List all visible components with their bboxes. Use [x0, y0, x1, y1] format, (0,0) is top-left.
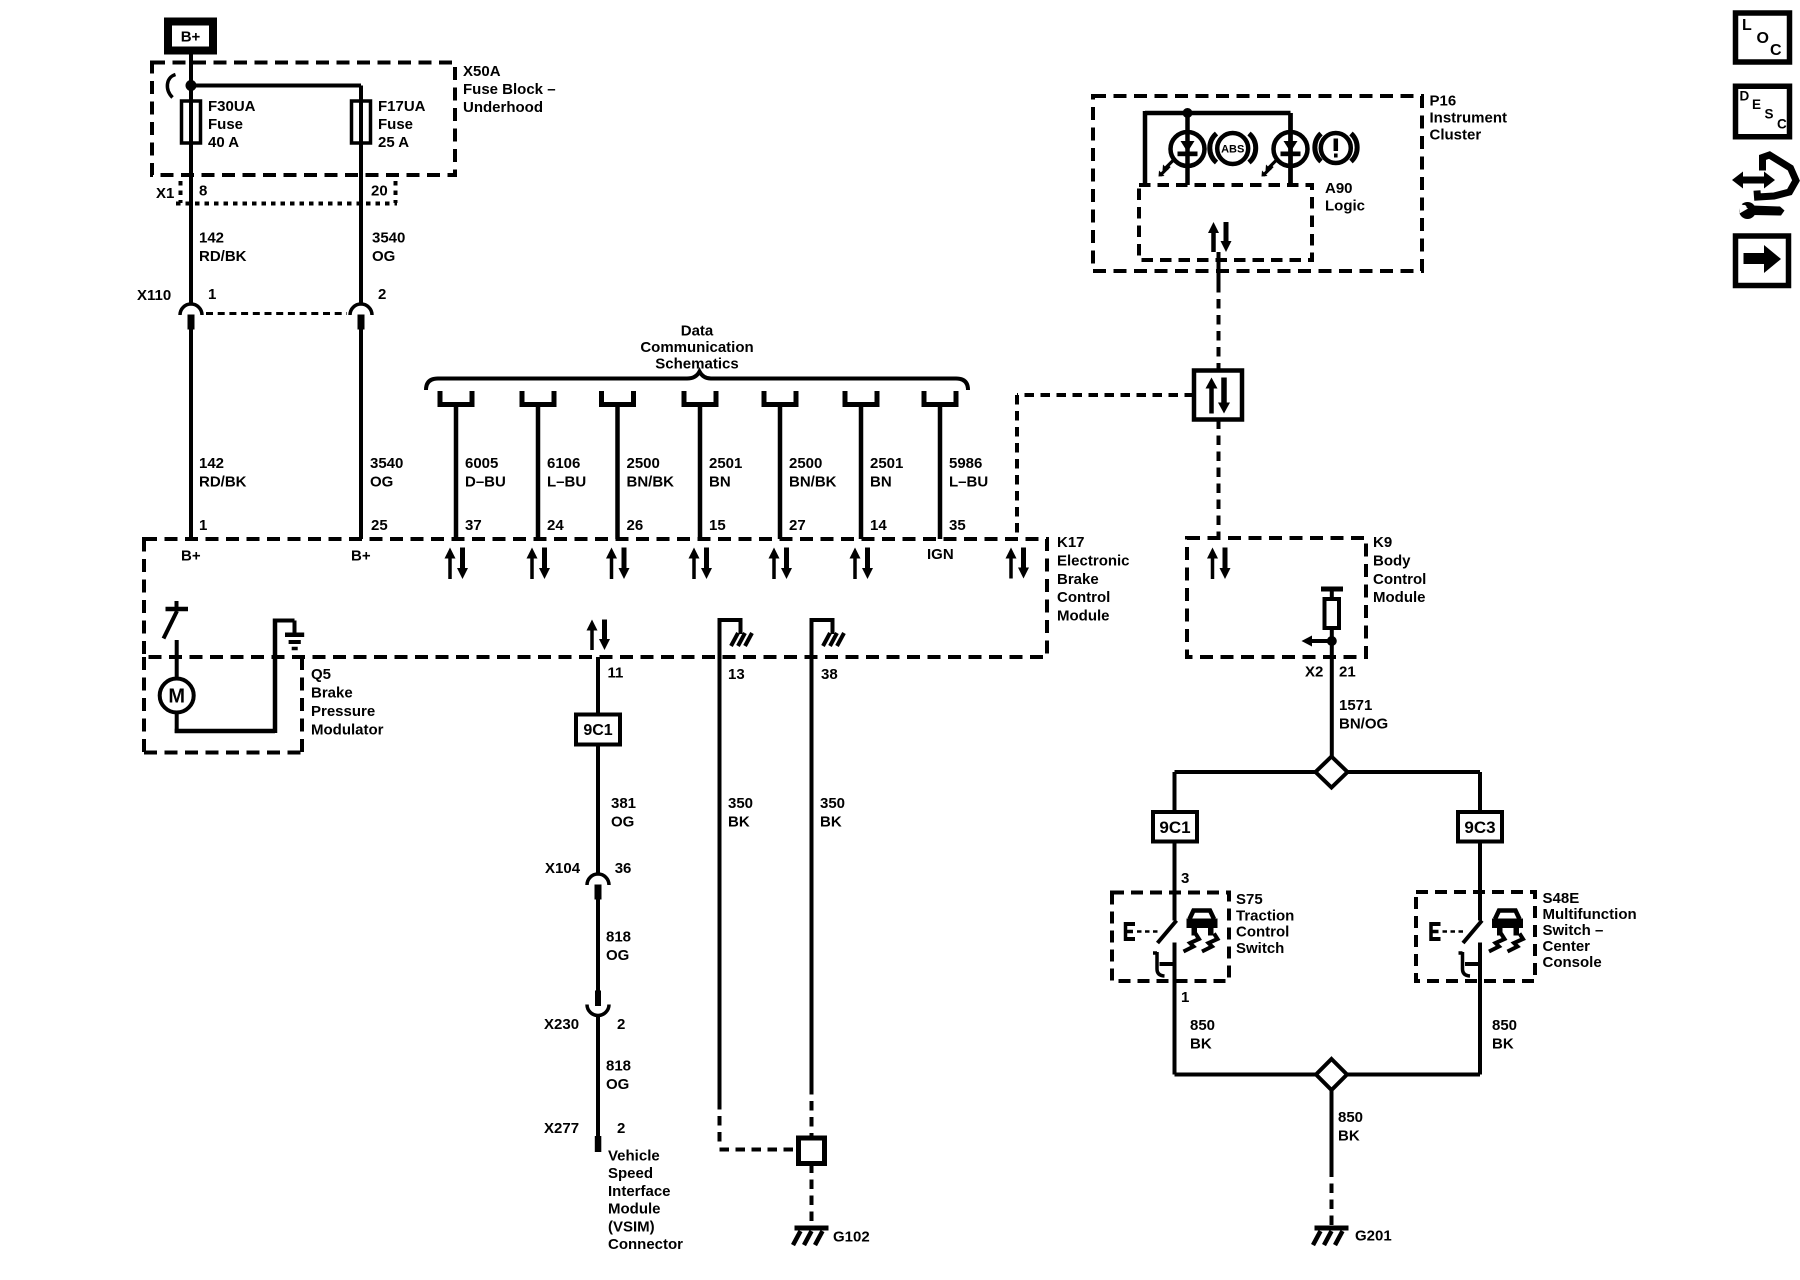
svg-text:Cluster: Cluster	[1430, 127, 1482, 144]
wire 9C3 to S48E	[1478, 842, 1482, 921]
svg-text:9C1: 9C1	[1159, 818, 1190, 837]
K17 serial-data arrows below pin 26	[610, 557, 614, 580]
svg-text:Fuse: Fuse	[378, 116, 413, 133]
connector X230 pin 2	[595, 991, 601, 1007]
K17 pin 38 internal ground symbol	[812, 618, 833, 622]
module K9 Body Control Module dashed box	[1187, 538, 1366, 657]
svg-text:B+: B+	[181, 548, 201, 565]
bottom wires joining splice diamond	[1175, 1073, 1317, 1077]
svg-text:P16: P16	[1430, 93, 1457, 110]
svg-text:6005: 6005	[465, 455, 498, 472]
svg-text:20: 20	[371, 183, 388, 200]
S48E traction control icon	[1495, 911, 1520, 920]
K17 serial-data arrows below pin 15	[692, 557, 696, 580]
svg-text:27: 27	[789, 517, 806, 534]
wire fuse F17UA to connector X110 pin 2	[359, 143, 363, 304]
A90 serial data arrows	[1211, 231, 1216, 252]
svg-text:O: O	[1757, 30, 1769, 47]
svg-text:25: 25	[371, 517, 388, 534]
K17 serial-data arrows below pin 27	[772, 557, 776, 580]
ABS warning symbol (ABS)	[1210, 134, 1217, 163]
svg-text:Communication: Communication	[640, 339, 753, 356]
splice diamond junction (bottom)	[1316, 1059, 1347, 1090]
svg-text:Console: Console	[1543, 954, 1602, 971]
connector X110 pin 2	[350, 304, 372, 315]
svg-text:818: 818	[606, 1058, 631, 1075]
icon button LOC	[1736, 13, 1790, 62]
svg-text:1: 1	[208, 286, 216, 303]
svg-text:9C3: 9C3	[1464, 818, 1495, 837]
brace over data communication wires	[426, 372, 968, 391]
svg-text:26: 26	[627, 517, 644, 534]
svg-text:Vehicle: Vehicle	[608, 1148, 660, 1165]
data link connector stub 7	[924, 391, 956, 405]
svg-text:Connector: Connector	[608, 1236, 683, 1253]
S75 switch contacts	[1124, 922, 1128, 941]
svg-text:C: C	[1777, 117, 1787, 132]
data link connector stub 1	[440, 391, 472, 405]
svg-text:40 A: 40 A	[208, 134, 239, 151]
svg-text:OG: OG	[606, 947, 629, 964]
K17 pin 11 serial data arrows	[590, 629, 594, 651]
fuse F17UA 25 A	[359, 101, 363, 143]
svg-text:381: 381	[611, 795, 636, 812]
svg-text:F17UA: F17UA	[378, 98, 426, 115]
svg-text:BN/BK: BN/BK	[627, 474, 675, 491]
svg-text:2500: 2500	[627, 455, 660, 472]
K17 serial-data arrows below pin 37	[448, 557, 452, 580]
svg-text:142: 142	[199, 230, 224, 247]
K17 serial-data arrows below pin 14	[853, 557, 857, 580]
wire fuse F30UA to connector X110 pin 1	[189, 143, 193, 304]
icon diagnostic link (arrows and wrench)	[1742, 177, 1765, 184]
svg-text:14: 14	[870, 517, 887, 534]
svg-text:1: 1	[199, 517, 207, 534]
wire cluster to serial data link	[1217, 252, 1221, 283]
svg-text:Q5: Q5	[311, 666, 331, 683]
svg-text:IGN: IGN	[927, 546, 954, 563]
wire 2500 BN/BK to K17 pin 26	[615, 405, 620, 540]
svg-text:Modulator: Modulator	[311, 722, 384, 739]
svg-text:1571: 1571	[1339, 697, 1372, 714]
svg-text:RD/BK: RD/BK	[199, 474, 247, 491]
svg-text:F30UA: F30UA	[208, 98, 256, 115]
svg-text:Control: Control	[1373, 571, 1426, 588]
svg-text:11: 11	[608, 665, 624, 682]
svg-text:Center: Center	[1543, 938, 1591, 955]
svg-text:S75: S75	[1236, 891, 1263, 908]
svg-text:142: 142	[199, 455, 224, 472]
svg-text:Control: Control	[1236, 924, 1289, 941]
svg-text:Speed: Speed	[608, 1165, 653, 1182]
brake warning symbol ((!))	[1315, 134, 1321, 162]
connector X277 pin 2 - VSIM connector end	[595, 1136, 602, 1152]
svg-text:5986: 5986	[949, 455, 982, 472]
wire B+ to fuse block	[189, 51, 193, 86]
svg-text:1: 1	[1181, 989, 1189, 1006]
svg-text:Switch –: Switch –	[1543, 922, 1604, 939]
svg-text:BN: BN	[870, 474, 892, 491]
serial data link junction box	[1194, 371, 1242, 420]
svg-text:Fuse Block –: Fuse Block –	[463, 81, 556, 98]
brake pressure switch inside K17	[166, 607, 189, 612]
K17 right-side serial data arrows	[1009, 557, 1013, 579]
wire 850 BK to ground G201	[1330, 1090, 1334, 1168]
svg-text:Pressure: Pressure	[311, 703, 375, 720]
fuse block X50A dashed box	[152, 63, 455, 176]
icon button DESC	[1736, 86, 1790, 137]
junction dot on cluster bus	[1183, 108, 1193, 118]
svg-text:BK: BK	[1190, 1036, 1212, 1053]
data link connector stub 2	[522, 391, 554, 405]
svg-text:OG: OG	[370, 474, 393, 491]
svg-text:350: 350	[728, 795, 753, 812]
fuse F30UA 40 A	[189, 101, 193, 143]
svg-text:X104: X104	[545, 860, 581, 877]
wire junction to F17UA branch	[189, 84, 361, 88]
svg-text:3540: 3540	[372, 230, 405, 247]
wire 6005 D-BU to K17 pin 37	[454, 405, 459, 540]
svg-text:38: 38	[821, 666, 838, 683]
svg-text:850: 850	[1190, 1017, 1215, 1034]
svg-text:M: M	[168, 686, 185, 708]
svg-text:OG: OG	[372, 248, 395, 265]
cluster feed bus wire	[1143, 111, 1148, 185]
module P16 Instrument Cluster dashed box	[1093, 96, 1422, 271]
svg-text:BK: BK	[1492, 1036, 1514, 1053]
svg-text:K9: K9	[1373, 534, 1392, 551]
svg-text:BK: BK	[728, 814, 750, 831]
svg-text:A90: A90	[1325, 180, 1353, 197]
svg-text:X230: X230	[544, 1016, 579, 1033]
module Q5 Brake Pressure Modulator dashed box	[142, 657, 146, 753]
splice junction in fuse block	[186, 80, 197, 91]
internal ground of K17 brake pressure modulator circuit	[175, 713, 179, 734]
svg-text:D–BU: D–BU	[465, 474, 506, 491]
ground G102	[795, 1226, 829, 1231]
K9 switch signal sensing element	[1321, 587, 1343, 592]
svg-text:350: 350	[820, 795, 845, 812]
svg-text:G102: G102	[833, 1229, 870, 1246]
K17 serial-data arrows below pin 24	[530, 557, 534, 580]
connector X110 dashed pairing line	[206, 312, 347, 315]
svg-text:X277: X277	[544, 1120, 579, 1137]
svg-text:X2: X2	[1305, 664, 1323, 681]
svg-text:Traction: Traction	[1236, 907, 1294, 924]
dashed wire splice block to ground G102	[810, 1164, 814, 1226]
wire 818 OG (lower)	[596, 1017, 600, 1137]
svg-text:Data: Data	[681, 323, 714, 340]
svg-text:S: S	[1765, 107, 1774, 122]
svg-text:9C1: 9C1	[583, 722, 612, 739]
svg-text:ABS: ABS	[1221, 144, 1244, 156]
svg-text:Logic: Logic	[1325, 198, 1365, 215]
svg-text:21: 21	[1339, 664, 1356, 681]
svg-text:15: 15	[709, 517, 726, 534]
svg-text:Interface: Interface	[608, 1183, 671, 1200]
svg-text:BN/OG: BN/OG	[1339, 716, 1388, 733]
power node B+ (battery feed)	[168, 22, 213, 51]
svg-text:13: 13	[728, 666, 745, 683]
wire K17 pin 11 to splice 9C1	[596, 657, 600, 873]
wire 5986 L-BU to K17 pin 35	[938, 405, 943, 540]
splice 9C3 (right branch)	[1458, 812, 1502, 842]
svg-text:2501: 2501	[709, 455, 742, 472]
svg-text:Control: Control	[1057, 589, 1110, 606]
module K17 Electronic Brake Control Module dashed box	[144, 539, 1047, 657]
wire 350 BK from K17 pin 38	[810, 618, 814, 1085]
svg-text:L–BU: L–BU	[949, 474, 988, 491]
svg-text:X50A: X50A	[463, 63, 501, 80]
splice 9C1 (left branch)	[1153, 812, 1197, 842]
svg-text:B+: B+	[351, 548, 371, 565]
svg-text:Fuse: Fuse	[208, 116, 243, 133]
svg-text:850: 850	[1492, 1017, 1517, 1034]
ABS indicator LED	[1185, 113, 1190, 185]
connector X110 pin 1	[180, 304, 202, 315]
svg-text:Brake: Brake	[311, 685, 353, 702]
brake warning indicator LED	[1288, 113, 1293, 185]
wire diamond to splice 9C3 branch	[1348, 770, 1481, 774]
svg-text:B+: B+	[181, 29, 201, 46]
wire diamond to splice 9C1 branch	[1175, 770, 1316, 774]
svg-text:Module: Module	[1057, 608, 1110, 625]
svg-text:6106: 6106	[547, 455, 580, 472]
svg-text:850: 850	[1338, 1109, 1363, 1126]
S75 traction control icon	[1190, 911, 1215, 920]
svg-text:8: 8	[199, 183, 207, 200]
connector X104 pin 36	[587, 874, 609, 885]
svg-text:OG: OG	[606, 1076, 629, 1093]
svg-text:C: C	[1770, 42, 1782, 59]
logic block A90 dashed box	[1139, 185, 1312, 260]
wire 2501 BN to K17 pin 15	[698, 405, 703, 540]
wire 2500 BN/BK to K17 pin 27	[778, 405, 783, 540]
svg-text:D: D	[1740, 89, 1750, 104]
svg-text:2: 2	[617, 1016, 625, 1033]
wire 3540 OG to K17 pin 25	[359, 326, 363, 539]
svg-text:K17: K17	[1057, 534, 1085, 551]
switch S48E Multifunction Switch - Center Console dashed box	[1416, 892, 1535, 981]
svg-text:BN/BK: BN/BK	[789, 474, 837, 491]
splice diamond junction (top)	[1316, 757, 1348, 788]
svg-text:G201: G201	[1355, 1228, 1392, 1245]
data link connector stub 5	[764, 391, 796, 405]
svg-text:3540: 3540	[370, 455, 403, 472]
svg-text:36: 36	[615, 860, 632, 877]
svg-text:2500: 2500	[789, 455, 822, 472]
data link connector stub 4	[684, 391, 716, 405]
svg-text:Instrument: Instrument	[1430, 110, 1508, 127]
K9 serial data arrows	[1211, 557, 1215, 580]
svg-text:BN: BN	[709, 474, 731, 491]
motor M of brake pressure modulator Q5	[160, 679, 194, 713]
dashed data wire junction box to K17	[1017, 393, 1194, 397]
svg-text:X1: X1	[156, 185, 174, 202]
data link connector stub 3	[602, 391, 634, 405]
svg-text:3: 3	[1181, 870, 1189, 887]
wire S75 pin 1, 850 BK	[1173, 981, 1177, 1075]
svg-text:BK: BK	[820, 814, 842, 831]
svg-text:S48E: S48E	[1543, 890, 1580, 907]
svg-text:Multifunction: Multifunction	[1543, 906, 1637, 923]
svg-text:Module: Module	[608, 1201, 661, 1218]
svg-text:OG: OG	[611, 814, 634, 831]
switch S75 Traction Control Switch dashed box	[1112, 893, 1229, 982]
svg-text:Brake: Brake	[1057, 571, 1099, 588]
svg-text:Module: Module	[1373, 589, 1426, 606]
wire 2501 BN to K17 pin 14	[859, 405, 864, 540]
svg-text:Underhood: Underhood	[463, 99, 543, 116]
svg-text:BK: BK	[1338, 1128, 1360, 1145]
svg-text:L: L	[1742, 17, 1752, 34]
wire 6106 L-BU to K17 pin 24	[536, 405, 541, 540]
wire 350 BK from K17 pin 13	[718, 618, 722, 1100]
svg-text:X110: X110	[137, 287, 171, 304]
connector X1 pin row (pins 8 and 20)	[179, 181, 183, 203]
data link connector stub 6	[845, 391, 877, 405]
svg-text:Switch: Switch	[1236, 940, 1284, 957]
svg-text:818: 818	[606, 929, 631, 946]
svg-text:2501: 2501	[870, 455, 903, 472]
S48E switch contacts	[1429, 922, 1433, 941]
svg-text:35: 35	[949, 517, 966, 534]
svg-text:Schematics: Schematics	[655, 356, 738, 373]
svg-text:25 A: 25 A	[378, 134, 409, 151]
dashed data wire junction box to K9	[1217, 420, 1221, 539]
svg-text:2: 2	[617, 1120, 625, 1137]
wire 818 OG (upper)	[596, 899, 600, 991]
ground splice block at G102	[799, 1138, 825, 1164]
svg-text:37: 37	[465, 517, 482, 534]
K17 pin 13 internal ground symbol	[720, 618, 741, 622]
svg-text:2: 2	[378, 286, 386, 303]
svg-text:E: E	[1752, 97, 1761, 112]
splice 9C1 (VSIM data)	[576, 715, 620, 745]
svg-text:(VSIM): (VSIM)	[608, 1218, 655, 1235]
wire 9C1 to S75 pin 3	[1173, 842, 1177, 921]
wire S48E, 850 BK	[1478, 981, 1482, 1075]
svg-text:24: 24	[547, 517, 564, 534]
icon button forward arrow	[1736, 236, 1789, 286]
svg-text:RD/BK: RD/BK	[199, 248, 247, 265]
ground G201	[1315, 1226, 1349, 1231]
wire 142 RD/BK to K17 pin 1	[189, 326, 193, 539]
svg-text:L–BU: L–BU	[547, 474, 586, 491]
svg-text:Electronic: Electronic	[1057, 552, 1130, 569]
svg-text:Body: Body	[1373, 552, 1411, 569]
